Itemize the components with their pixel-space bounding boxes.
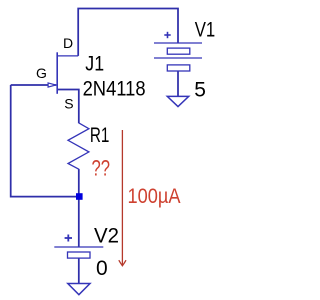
svg-text:D: D: [63, 35, 73, 51]
svg-text:2N4118: 2N4118: [83, 77, 146, 100]
svg-text:V2: V2: [94, 225, 119, 248]
svg-text:100µA: 100µA: [128, 185, 181, 208]
svg-text:5: 5: [194, 79, 206, 102]
svg-text:S: S: [64, 96, 73, 112]
svg-text:V1: V1: [195, 19, 216, 42]
svg-text:J1: J1: [85, 53, 104, 76]
svg-text:0: 0: [96, 257, 108, 280]
svg-text:R1: R1: [90, 124, 110, 147]
svg-text:G: G: [36, 65, 47, 81]
svg-text:??: ??: [92, 155, 111, 180]
